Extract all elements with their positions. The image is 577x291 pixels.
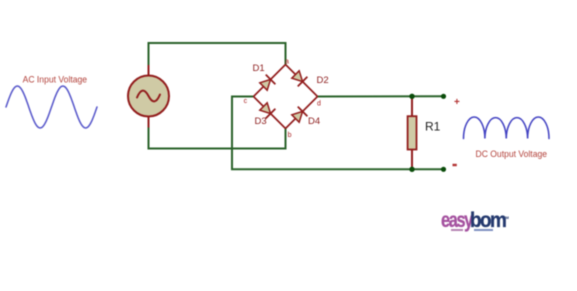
diode D4 (anode b, cathode d) — [291, 107, 308, 124]
node d label — [317, 100, 321, 107]
bridge edge wire c-b — [254, 97, 286, 129]
svg-text:c: c — [244, 98, 248, 105]
label D1 — [253, 63, 265, 74]
label D3 — [255, 116, 267, 127]
bridge edge wire b-d — [286, 97, 318, 129]
svg-text:b: b — [288, 132, 292, 139]
AC source V1 body — [128, 76, 169, 117]
svg-text:D4: D4 — [308, 116, 320, 127]
svg-text:DC Output Voltage: DC Output Voltage — [476, 149, 548, 159]
resistor R1 body — [408, 116, 417, 149]
terminal dot positive output — [441, 94, 446, 99]
node a label — [285, 58, 289, 65]
svg-text:D1: D1 — [253, 63, 265, 74]
diode D3 (anode c, cathode b) — [259, 102, 276, 119]
easybom logo — [441, 208, 472, 233]
label AC Input Voltage — [23, 75, 88, 85]
bridge edge wire c-a — [254, 65, 286, 97]
svg-text:D3: D3 — [255, 116, 267, 127]
DC output rectified waveform — [464, 117, 550, 139]
junction dot at resistor top — [409, 94, 414, 99]
svg-text:AC Input Voltage: AC Input Voltage — [23, 75, 88, 85]
wire top rail: source top to node a — [149, 43, 286, 65]
svg-text:d: d — [317, 100, 321, 107]
bridge edge wire a-d — [286, 65, 318, 97]
terminal dot negative output — [441, 167, 446, 172]
AC input sine waveform — [6, 86, 97, 128]
node c label — [244, 98, 248, 105]
svg-text:R1: R1 — [425, 120, 441, 134]
wire node d to top positive rail — [318, 95, 444, 97]
node b label — [288, 132, 292, 139]
junction dot at resistor bottom — [409, 167, 414, 172]
diode D1 (anode c, cathode a) — [259, 75, 276, 92]
svg-text:+: + — [454, 97, 460, 108]
label R1 — [425, 120, 441, 134]
svg-text:D2: D2 — [317, 75, 329, 86]
resistor R1 top lead — [411, 96, 413, 116]
label D4 — [308, 116, 320, 127]
AC source V1 bottom lead — [148, 117, 150, 128]
AC source V1 sine symbol — [137, 91, 160, 102]
wire node c to bottom negative rail — [232, 97, 444, 170]
wire source bottom to node b — [149, 128, 286, 149]
resistor R1 bottom lead — [411, 150, 413, 170]
minus terminal label — [453, 164, 457, 166]
svg-text:a: a — [285, 58, 289, 65]
label DC Output Voltage — [476, 149, 548, 159]
easybom logo tagline — [451, 229, 463, 231]
label D2 — [317, 75, 329, 86]
AC source V1 top lead — [148, 65, 150, 76]
plus terminal label — [454, 97, 460, 108]
diode D2 (anode a, cathode d) — [291, 70, 308, 87]
